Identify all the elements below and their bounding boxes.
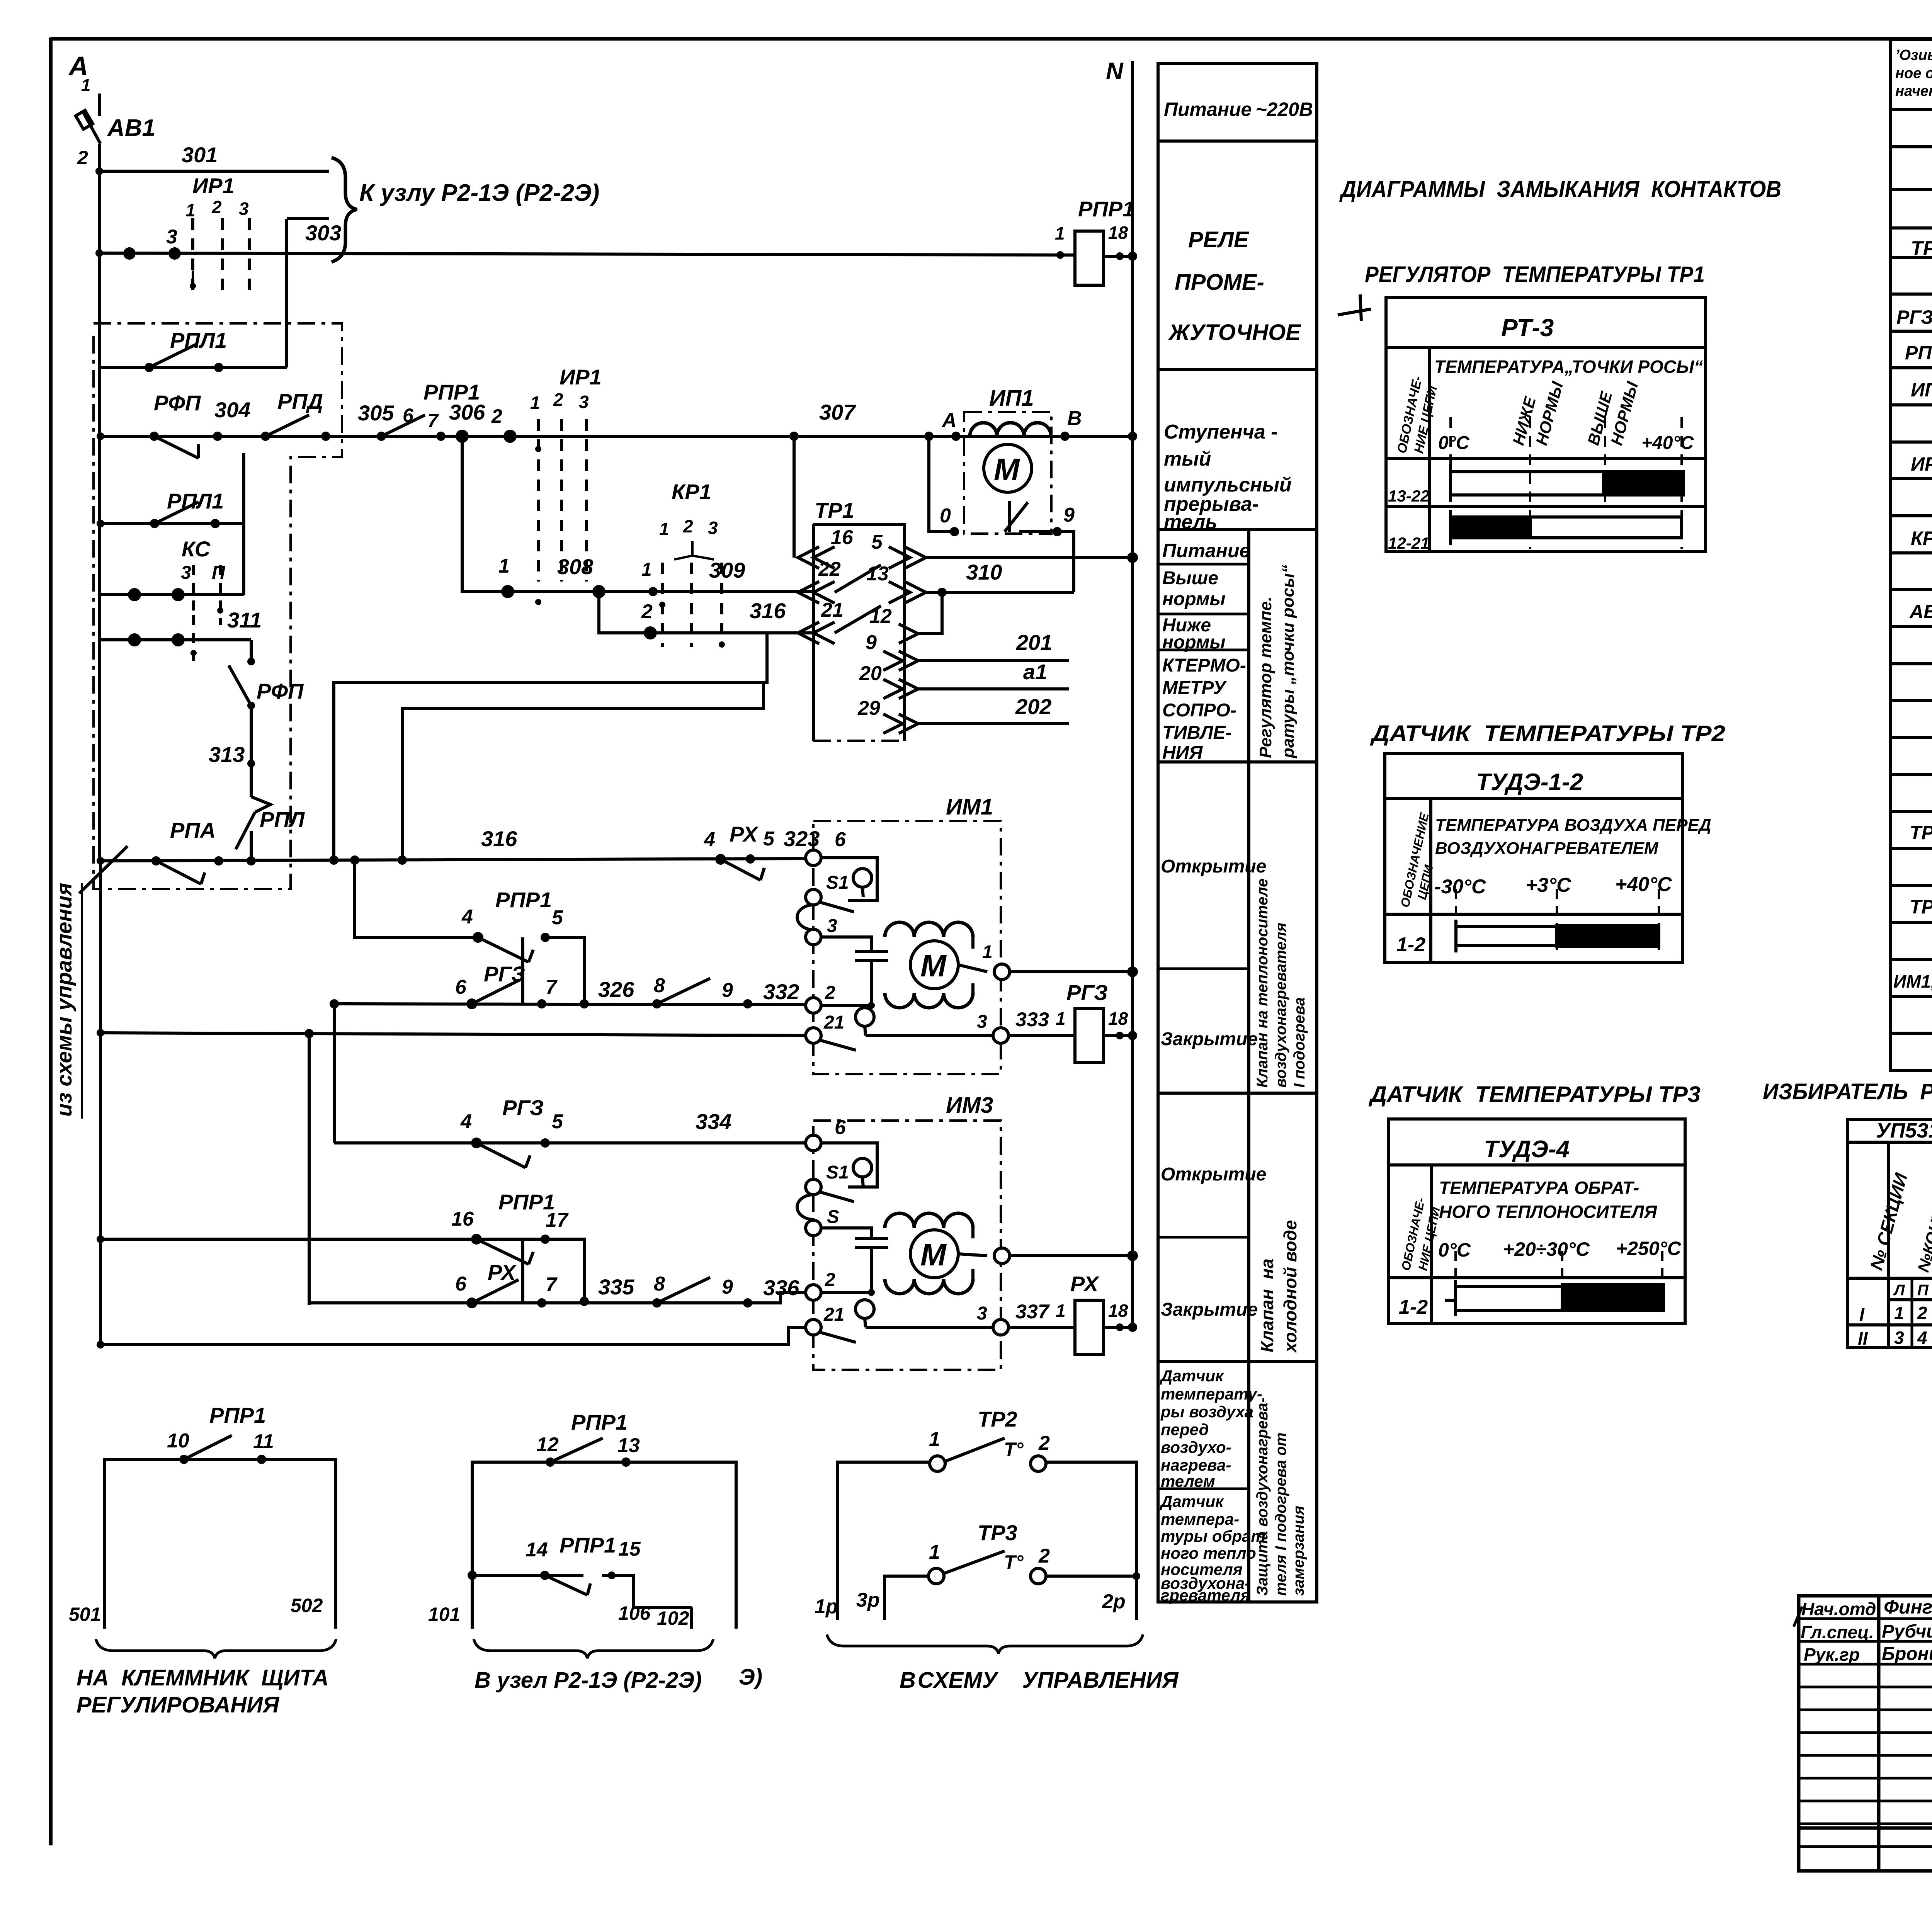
svg-text:S1: S1 <box>826 872 849 893</box>
svg-text:1: 1 <box>929 1428 940 1451</box>
contact RPR1 14-15 wire 106 <box>472 1574 583 1577</box>
svg-text:РФП: РФП <box>257 679 304 703</box>
svg-text:16: 16 <box>451 1208 474 1230</box>
svg-text:21: 21 <box>823 1304 844 1325</box>
svg-text:106: 106 <box>618 1602 651 1624</box>
svg-text:ИР1: ИР1 <box>560 365 602 389</box>
svg-text:Фингер: Фингер <box>1884 1596 1932 1618</box>
svg-text:К узлу Р2-1Э (Р2-2Э): К узлу Р2-1Э (Р2-2Э) <box>359 180 599 206</box>
svg-text:РХ: РХ <box>488 1260 517 1284</box>
svg-text:3: 3 <box>181 563 191 583</box>
svg-text:336: 336 <box>763 1275 799 1300</box>
svg-text:ЖУТОЧНОЕ: ЖУТОЧНОЕ <box>1168 320 1301 345</box>
svg-text:Открытие: Открытие <box>1161 1164 1266 1185</box>
svg-text:нормы: нормы <box>1162 632 1226 653</box>
IM3 terminal 6 <box>806 1135 821 1151</box>
svg-text:22: 22 <box>818 558 841 580</box>
svg-text:0°С: 0°С <box>1438 1239 1471 1261</box>
svg-text:335: 335 <box>598 1275 634 1299</box>
svg-text:РПА: РПА <box>170 818 216 842</box>
svg-text:6: 6 <box>835 828 846 851</box>
signature squiggles <box>1794 1604 1932 1659</box>
svg-text:13-22: 13-22 <box>1388 487 1429 505</box>
IM3 limit switch S1 <box>821 1143 877 1187</box>
svg-text:воздухонагревателя: воздухонагревателя <box>1272 923 1289 1088</box>
svg-text:РГЗ: РГЗ <box>1066 980 1108 1005</box>
relay coil RH <box>1075 1300 1104 1354</box>
svg-text:7: 7 <box>546 976 558 998</box>
svg-text:15: 15 <box>618 1538 641 1560</box>
wire loop from TR1 21 <box>334 633 767 860</box>
underbrace <box>827 1634 1143 1654</box>
contact RH 4-5 on 316 <box>721 859 760 880</box>
IM3 terminal S <box>797 1195 813 1219</box>
svg-text:333: 333 <box>1015 1008 1049 1031</box>
contact RPR1 12-13 <box>550 1438 603 1462</box>
contact RGZ 8-9 <box>657 978 710 1004</box>
svg-text:П: П <box>212 563 226 583</box>
contact KS rung <box>100 593 244 596</box>
svg-text:5: 5 <box>552 1110 563 1133</box>
contact RPL lower rung <box>100 522 243 525</box>
svg-text:5: 5 <box>763 828 775 850</box>
svg-text:1: 1 <box>530 393 540 413</box>
svg-text:1-2: 1-2 <box>1396 934 1425 956</box>
svg-text:теля I подогрева от: теля I подогрева от <box>1272 1432 1289 1596</box>
svg-text:ТЕМПЕРАТУРА ВОЗДУХА ПЕРЕД: ТЕМПЕРАТУРА ВОЗДУХА ПЕРЕД <box>1435 816 1711 835</box>
RT-3 row 12-21 bar <box>1452 517 1682 538</box>
svg-text:АВ1: АВ1 <box>1909 601 1932 622</box>
svg-text:II: II <box>1858 1328 1868 1349</box>
svg-text:ТЕМПЕРАТУРА ОБРАТ-: ТЕМПЕРАТУРА ОБРАТ- <box>1439 1178 1639 1198</box>
actuator IM1 box <box>813 821 1001 1074</box>
svg-text:ПРОМЕ-: ПРОМЕ- <box>1175 270 1264 295</box>
svg-text:НИЯ: НИЯ <box>1162 743 1203 763</box>
svg-text:ВОЗДУХОНАГРЕВАТЕЛЕМ: ВОЗДУХОНАГРЕВАТЕЛЕМ <box>1435 839 1659 858</box>
svg-text:из схемы управления: из схемы управления <box>52 883 76 1117</box>
svg-text:311: 311 <box>227 608 262 632</box>
svg-text:2: 2 <box>77 147 88 168</box>
svg-text:334: 334 <box>696 1109 731 1134</box>
svg-text:9: 9 <box>722 979 733 1002</box>
IM3 motor windings <box>885 1213 973 1228</box>
node A phase terminal <box>68 51 90 95</box>
svg-text:РТ-3: РТ-3 <box>1501 314 1554 342</box>
function strip outer box <box>1158 63 1317 1602</box>
svg-text:+3°С: +3°С <box>1526 874 1571 896</box>
svg-text:М: М <box>994 452 1020 486</box>
svg-text:332: 332 <box>763 980 799 1004</box>
svg-text:201: 201 <box>1016 630 1052 655</box>
svg-text:ТР1: ТР1 <box>1911 237 1932 260</box>
wire 308/309 rung <box>462 436 813 592</box>
svg-text:телем: телем <box>1161 1472 1215 1490</box>
svg-text:туры обрат: туры обрат <box>1161 1527 1265 1545</box>
svg-text:3: 3 <box>1894 1328 1904 1348</box>
svg-text:Защита воздухонагрева-: Защита воздухонагрева- <box>1254 1398 1271 1596</box>
svg-text:РПД: РПД <box>277 389 323 413</box>
svg-text:3: 3 <box>708 518 718 538</box>
IM1 limit switch S1 <box>821 858 877 900</box>
strip inner column line <box>1247 530 1250 1602</box>
svg-text:КР1: КР1 <box>672 480 711 504</box>
svg-text:14: 14 <box>526 1539 548 1561</box>
svg-text:2: 2 <box>683 516 693 536</box>
svg-text:Гл.спец.: Гл.спец. <box>1801 1622 1874 1642</box>
IM3 terminal 3out wire 337 to RH coil <box>993 1320 1009 1335</box>
svg-text:ИМ1: ИМ1 <box>946 794 993 820</box>
IM3 terminal 1 to N <box>994 1248 1010 1263</box>
svg-text:3: 3 <box>977 1012 987 1032</box>
svg-text:РПЛ1: РПЛ1 <box>167 489 224 513</box>
svg-text:ТИВЛЕ-: ТИВЛЕ- <box>1162 723 1231 743</box>
svg-text:202: 202 <box>1015 694 1051 719</box>
wire 1r-2r loop <box>838 1462 930 1620</box>
IM1 limit switch 21 <box>806 1028 821 1043</box>
contact RPL1 <box>99 366 287 369</box>
svg-text:МЕТРУ: МЕТРУ <box>1162 678 1227 698</box>
TR1 row 21-12 <box>798 622 835 644</box>
svg-text:ТР3: ТР3 <box>1910 896 1932 918</box>
IM1 capacitor <box>821 937 871 951</box>
selector table UP5311-C225 <box>1847 1119 1932 1348</box>
svg-text:326: 326 <box>598 977 634 1002</box>
svg-text:В СХЕМУ УПРАВЛЕНИЯ: В СХЕМУ УПРАВЛЕНИЯ <box>900 1668 1179 1693</box>
svg-text:ИР1: ИР1 <box>1911 453 1932 475</box>
svg-text:ТР3: ТР3 <box>978 1520 1017 1545</box>
svg-text:10: 10 <box>167 1430 189 1452</box>
svg-text:2р: 2р <box>1102 1590 1126 1613</box>
svg-text:2: 2 <box>491 405 502 427</box>
phase bus <box>98 144 101 862</box>
svg-text:12-21: 12-21 <box>1388 534 1429 552</box>
motor of IP1 <box>984 444 1032 492</box>
svg-text:КС: КС <box>182 537 211 561</box>
svg-text:6: 6 <box>403 405 414 426</box>
contact RPR1 16-17 rung <box>100 1238 545 1241</box>
svg-text:316: 316 <box>750 599 786 623</box>
svg-text:РПР1: РПР1 <box>1078 197 1134 221</box>
svg-text:1: 1 <box>1056 1008 1066 1029</box>
svg-text:4: 4 <box>460 1110 472 1133</box>
svg-text:а1: а1 <box>1023 660 1047 684</box>
breaker AB1 <box>98 94 101 116</box>
svg-text:21: 21 <box>821 599 844 621</box>
svg-text:2: 2 <box>825 1270 835 1290</box>
svg-text:темпера-: темпера- <box>1161 1510 1239 1528</box>
contact RH 8-9 <box>657 1277 710 1303</box>
svg-text:1: 1 <box>982 942 993 963</box>
leader from control circuit <box>79 846 128 893</box>
svg-text:1: 1 <box>81 76 90 95</box>
IM1 terminal 2 <box>806 998 821 1013</box>
svg-text:Питание ~220В: Питание ~220В <box>1164 99 1313 120</box>
wire 501-502 loop <box>104 1459 336 1629</box>
svg-text:ИР1: ИР1 <box>192 173 235 198</box>
svg-text:НА КЛЕММНИК ЩИТА: НА КЛЕММНИК ЩИТА <box>77 1665 328 1690</box>
svg-text:+40°С: +40°С <box>1615 873 1672 896</box>
svg-text:НОГО ТЕПЛОНОСИТЕЛЯ: НОГО ТЕПЛОНОСИТЕЛЯ <box>1439 1202 1658 1222</box>
wire 311 rung <box>100 638 251 641</box>
selector IR1 contact on rung <box>538 419 587 582</box>
svg-text:ТР2: ТР2 <box>1910 822 1932 843</box>
svg-text:РПР1: РПР1 <box>1905 342 1932 364</box>
svg-text:337: 337 <box>1015 1301 1050 1323</box>
svg-text:Клапан на теплоносителе: Клапан на теплоносителе <box>1254 879 1271 1088</box>
TUDE-4 row 1-2 bar <box>1456 1285 1663 1288</box>
svg-text:16: 16 <box>831 526 854 549</box>
svg-text:РПР1: РПР1 <box>571 1410 628 1434</box>
svg-text:ИМ3: ИМ3 <box>946 1093 993 1118</box>
contact RGZ 4-5 / wire 334 rung <box>334 1141 806 1144</box>
svg-text:307: 307 <box>819 400 856 424</box>
underbrace <box>474 1639 713 1658</box>
contact RPL <box>251 797 270 812</box>
strip row lines <box>1158 139 1317 143</box>
svg-text:0: 0 <box>940 505 951 527</box>
svg-text:Бронштейн: Бронштейн <box>1882 1644 1932 1664</box>
selector IR1 contact on wire 303 <box>193 218 249 294</box>
svg-text:308: 308 <box>557 554 594 579</box>
panel boundary dash-dot <box>94 323 342 889</box>
pointer mark <box>1338 294 1371 321</box>
svg-text:Э): Э) <box>739 1665 762 1690</box>
svg-text:4: 4 <box>461 906 473 928</box>
svg-text:5: 5 <box>871 531 883 553</box>
svg-text:РГЗ: РГЗ <box>502 1095 544 1120</box>
svg-text:8: 8 <box>654 1273 665 1295</box>
contact RPR1 6-7 <box>381 415 425 436</box>
svg-text:’Озиы,ибн: ’Озиы,ибн <box>1895 47 1932 63</box>
svg-text:Регулятор темпе.: Регулятор темпе. <box>1256 597 1275 758</box>
svg-text:ры воздуха: ры воздуха <box>1160 1403 1253 1421</box>
svg-text:ИП1: ИП1 <box>1911 379 1932 401</box>
underbrace <box>96 1639 336 1658</box>
svg-text:КТЕРМО-: КТЕРМО- <box>1162 655 1246 676</box>
IM1 motor <box>910 941 958 989</box>
svg-text:М: М <box>920 1238 947 1272</box>
svg-text:1: 1 <box>641 559 652 580</box>
TR1 row 9 wire 201 <box>899 651 918 670</box>
svg-text:7: 7 <box>546 1274 558 1296</box>
vertical feeder <box>308 1034 311 1305</box>
svg-text:тый: тый <box>1164 448 1211 470</box>
svg-text:11: 11 <box>253 1430 274 1453</box>
svg-text:РГЗ: РГЗ <box>484 962 525 986</box>
svg-text:Питание: Питание <box>1162 540 1250 561</box>
rung to IM1 pin 21 <box>100 1033 806 1036</box>
svg-text:ТУДЭ-4: ТУДЭ-4 <box>1484 1136 1570 1163</box>
svg-text:7: 7 <box>427 410 439 432</box>
contact RGZ 6-7 / wire 326 rung <box>334 1004 806 1005</box>
IM1 motor windings <box>885 922 973 937</box>
svg-text:9: 9 <box>1063 504 1075 526</box>
wire 101-102 loop <box>472 1462 736 1629</box>
svg-text:2: 2 <box>825 983 835 1003</box>
svg-text:0°С: 0°С <box>1438 433 1470 453</box>
IM1 terminal 6 <box>806 850 821 866</box>
svg-text:6: 6 <box>455 1273 467 1295</box>
svg-text:1: 1 <box>1894 1303 1904 1323</box>
svg-text:начение: начение <box>1895 83 1932 99</box>
TR1 row 20 wire a1 <box>899 679 918 699</box>
svg-text:S1: S1 <box>826 1162 849 1183</box>
actuator IM3 box <box>813 1121 1001 1370</box>
svg-text:РХ: РХ <box>730 822 759 846</box>
svg-text:Т°: Т° <box>1004 1439 1024 1460</box>
svg-text:310: 310 <box>966 560 1002 584</box>
IM3 terminal 2 <box>806 1285 821 1300</box>
contact RPA / wire 316 rung <box>100 859 806 861</box>
svg-text:1: 1 <box>498 555 510 577</box>
stepping pulse interrupter IP1 <box>964 412 1051 534</box>
svg-text:РПЛ1: РПЛ1 <box>170 328 227 352</box>
svg-text:1: 1 <box>659 519 669 539</box>
svg-text:Нач.отд.: Нач.отд. <box>1801 1599 1881 1619</box>
wire to RPR1 4-5 rung <box>355 860 478 937</box>
svg-text:4: 4 <box>1917 1328 1927 1348</box>
IP1 wiper pins 0-9 <box>929 436 954 532</box>
svg-text:ного тепло: ного тепло <box>1161 1544 1256 1562</box>
svg-text:РГЗ;РХ: РГЗ;РХ <box>1896 306 1932 328</box>
TUDE-4 diagram table <box>1388 1119 1685 1323</box>
svg-text:21: 21 <box>823 1012 844 1033</box>
svg-text:Ступенча -: Ступенча - <box>1164 421 1278 443</box>
svg-text:+20÷30°С: +20÷30°С <box>1503 1238 1590 1260</box>
fragment to unit R2-1E <box>428 1410 736 1693</box>
svg-text:ИЗБИРАТЕЛЬ РЕГУЛИРОВАНИЯ ИР1: ИЗБИРАТЕЛЬ РЕГУЛИРОВАНИЯ ИР1 <box>1763 1079 1932 1104</box>
svg-text:ДИАГРАММЫ ЗАМЫКАНИЯ КОНТАКТО: ДИАГРАММЫ ЗАМЫКАНИЯ КОНТАКТОВ <box>1339 176 1781 202</box>
relay coil RPR1 on wire 303 <box>1075 231 1104 285</box>
svg-text:502: 502 <box>291 1595 323 1616</box>
junction to TR1 pin16 <box>793 436 796 558</box>
svg-text:18: 18 <box>1108 1301 1128 1321</box>
svg-text:РПР1: РПР1 <box>495 888 552 912</box>
svg-text:6: 6 <box>455 976 467 998</box>
wire loop lower <box>402 682 764 860</box>
svg-text:17: 17 <box>546 1209 569 1231</box>
svg-text:Выше: Выше <box>1162 568 1218 588</box>
svg-text:КР1: КР1 <box>1911 527 1932 549</box>
svg-text:перед: перед <box>1161 1420 1209 1439</box>
svg-text:ИП1: ИП1 <box>989 386 1034 411</box>
contact RFP lower chain <box>250 640 253 662</box>
TR1 row 16-5 <box>798 547 835 568</box>
svg-text:1р: 1р <box>815 1595 838 1618</box>
svg-text:ИМ1,ИМ3: ИМ1,ИМ3 <box>1893 971 1932 991</box>
IM3 motor <box>910 1230 958 1278</box>
contact RPD <box>265 415 309 436</box>
svg-text:305: 305 <box>358 401 394 425</box>
svg-text:А: А <box>941 409 957 432</box>
contact RPR1 4-5 <box>478 937 529 962</box>
fragment to control circuit <box>739 1407 1179 1693</box>
svg-text:9: 9 <box>866 631 877 654</box>
svg-text:S: S <box>827 1207 839 1227</box>
svg-text:Клапан на: Клапан на <box>1257 1258 1277 1352</box>
svg-text:ТУДЭ-1-2: ТУДЭ-1-2 <box>1476 769 1583 796</box>
svg-text:304: 304 <box>214 398 250 422</box>
title block stamp <box>1799 1596 1932 1871</box>
svg-text:2: 2 <box>1038 1545 1050 1567</box>
svg-text:2: 2 <box>1917 1303 1927 1323</box>
svg-text:N: N <box>1106 58 1124 85</box>
svg-text:1: 1 <box>1056 1301 1066 1321</box>
svg-text:Открытие: Открытие <box>1161 856 1266 877</box>
RT-3 diagram table <box>1386 298 1706 551</box>
wire 301 <box>99 170 329 173</box>
svg-text:I подогрева: I подогрева <box>1291 997 1308 1088</box>
svg-text:ТР2: ТР2 <box>978 1407 1017 1431</box>
svg-text:РЕГУЛЯТОР ТЕМПЕРАТУРЫ ТР1: РЕГУЛЯТОР ТЕМПЕРАТУРЫ ТР1 <box>1365 262 1705 287</box>
TR1 row 22-13 wire 310 <box>798 582 835 603</box>
svg-text:2: 2 <box>211 197 222 217</box>
svg-text:Закрытие: Закрытие <box>1161 1029 1258 1049</box>
brace to unit R2-1E <box>332 158 357 262</box>
svg-text:ДАТЧИК ТЕМПЕРАТУРЫ ТР3: ДАТЧИК ТЕМПЕРАТУРЫ ТР3 <box>1368 1082 1701 1107</box>
svg-text:РПР1: РПР1 <box>209 1403 266 1427</box>
svg-text:тель: тель <box>1164 511 1217 533</box>
svg-text:2: 2 <box>1038 1432 1050 1454</box>
svg-text:18: 18 <box>1108 1008 1128 1029</box>
svg-text:20: 20 <box>859 662 882 685</box>
rung to IM3 pin 21 <box>100 1327 806 1345</box>
svg-text:Закрытие: Закрытие <box>1161 1299 1258 1320</box>
svg-text:нагрева-: нагрева- <box>1161 1456 1231 1474</box>
contact RPR1 10-11 <box>184 1435 232 1459</box>
selector KR1 contact group <box>662 563 722 647</box>
TUDE-1-2 diagram table <box>1385 753 1682 963</box>
svg-text:3: 3 <box>579 392 589 412</box>
svg-text:301: 301 <box>182 143 218 167</box>
contact RH 6-7 / wire 335 rung <box>309 1292 806 1303</box>
IM1 terminal 3 <box>797 905 813 930</box>
svg-text:РХ: РХ <box>1070 1272 1100 1296</box>
wire 302 to node bracket <box>287 217 329 220</box>
svg-text:РПР1: РПР1 <box>560 1533 616 1557</box>
svg-text:3: 3 <box>827 916 837 936</box>
IM1 terminal 1 to N <box>994 964 1010 980</box>
contact RFP <box>154 436 199 458</box>
svg-text:316: 316 <box>481 826 517 851</box>
svg-text:ТЕМПЕРАТУРА„ТОЧКИ РОСЫ“: ТЕМПЕРАТУРА„ТОЧКИ РОСЫ“ <box>1434 357 1703 377</box>
svg-text:Л: Л <box>1893 1282 1905 1299</box>
svg-text:1: 1 <box>929 1541 940 1563</box>
svg-text:4: 4 <box>704 828 715 851</box>
svg-text:309: 309 <box>709 558 745 582</box>
svg-text:РФП: РФП <box>154 391 201 415</box>
svg-text:Рук.гр: Рук.гр <box>1804 1644 1860 1665</box>
svg-text:12: 12 <box>536 1434 559 1456</box>
RT-3 row 13-22 bar <box>1451 472 1682 495</box>
svg-text:102: 102 <box>657 1607 689 1629</box>
parts list table <box>1891 39 1932 1070</box>
svg-text:П: П <box>1917 1282 1929 1299</box>
svg-text:1: 1 <box>185 200 196 220</box>
svg-text:В: В <box>1067 407 1082 430</box>
svg-text:+250°С: +250°С <box>1616 1238 1682 1259</box>
svg-text:29: 29 <box>857 697 880 719</box>
thermal contact TR3 <box>929 1568 944 1584</box>
svg-text:3: 3 <box>166 226 177 248</box>
svg-text:13: 13 <box>866 563 889 585</box>
wire 3r <box>884 1576 929 1620</box>
fragment to control panel terminal strip <box>69 1403 336 1718</box>
TR1 row 29 wire 202 <box>899 714 918 733</box>
svg-text:гревателя: гревателя <box>1161 1586 1250 1604</box>
svg-text:СОПРО-: СОПРО- <box>1162 700 1236 721</box>
thermostat TR1 contact block <box>813 524 905 741</box>
